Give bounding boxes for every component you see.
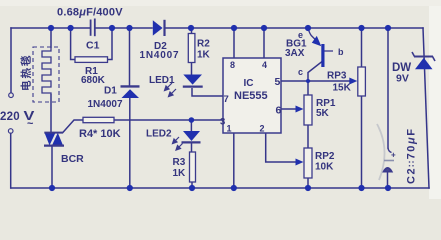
wire RP2 to bottom rail [307,178,309,188]
wire heater column top [50,28,52,47]
node RP2 bottom [305,185,311,191]
wire triac to bottom rail [51,146,53,188]
node C2 top [385,25,391,31]
wire top supply rail middle segment (C1 to D2) [96,27,152,29]
svg-text:5K: 5K [316,108,330,119]
svg-text:3AX: 3AX [285,48,305,59]
wire IC pin 8 lead [233,28,235,58]
wire IC pin 5 lead [281,80,310,82]
wire LED1 to IC pin 7 [192,89,223,96]
LED LED2 [183,131,200,141]
svg-text:6: 6 [276,105,282,117]
svg-text:7: 7 [224,94,229,105]
svg-text:RP2: RP2 [315,151,335,162]
node triac bottom [49,185,55,191]
diode D2 [153,20,163,35]
node R2 top [188,25,194,31]
wire IC pin 1 lead to bottom rail [233,133,235,188]
svg-text:1K: 1K [197,50,211,61]
svg-text:NE555: NE555 [234,90,268,102]
node pin 8 top [231,25,237,31]
svg-text:220: 220 [0,111,20,123]
wire R2 top lead [191,28,193,34]
node BG1 emitter top [305,25,311,31]
node D1 top [126,25,132,31]
svg-text:R2: R2 [197,39,210,50]
wire RP3 top lead [361,28,363,67]
resistor R2 [188,34,195,63]
svg-text:5: 5 [275,76,281,88]
svg-text:10K: 10K [315,162,334,173]
wire RP3 wiper lead [310,80,352,82]
svg-text:D1: D1 [104,86,117,97]
svg-text:~: ~ [27,118,34,130]
svg-text:C1: C1 [86,40,100,52]
svg-text:9V: 9V [396,73,409,85]
resistor R1 [75,57,108,63]
svg-text:1N4007: 1N4007 [140,50,180,61]
wire pin 3 net (R4 to IC pin 3) [114,119,223,121]
wire R2 to LED1 [191,63,193,75]
svg-text:1K: 1K [173,168,187,179]
wire R3 to bottom rail [191,182,193,188]
wire top supply rail left segment [11,27,90,29]
wire IC pin 6 lead [281,108,296,110]
wire RP3 bottom lead [361,96,363,188]
wire C2 top lead [387,28,389,148]
node heater top [48,25,54,31]
svg-text:2: 2 [260,124,265,134]
resistor R4 [83,117,114,122]
wire D1 column lower [129,98,131,188]
wire C2 bottom lead [387,172,389,188]
svg-text:R4* 10K: R4* 10K [79,128,121,140]
wire IC pin 2 lead to RP2 wiper [266,133,296,162]
svg-text:+: + [391,151,396,160]
wire RP1 to RP2 [307,125,309,148]
svg-text:R3: R3 [173,157,186,168]
wire R4 left lead to triac gate [63,120,83,132]
capacitor C2 electrolytic [377,124,385,180]
wire right edge [423,28,429,188]
svg-text:680K: 680K [81,75,106,86]
wire left input lower lead [10,133,12,188]
node LED2 junction on pin 3 net [189,117,195,123]
node pin 4 top [261,25,267,31]
node collector/pin5/RP1 junction [306,79,310,83]
svg-text:e: e [298,30,303,40]
node R3 bottom [189,185,195,191]
node RP3 bottom [358,185,364,191]
node D1 bottom [127,185,133,191]
heater dashed enclosure [33,47,59,102]
svg-text:b: b [338,47,344,57]
svg-text:3: 3 [220,117,225,128]
potentiometer RP3 [358,67,366,96]
transistor BG1 [308,28,333,67]
LED2 emission arrows [173,137,183,150]
wire R1 right lead [108,28,113,60]
svg-text:RP3: RP3 [327,71,347,82]
potentiometer RP2 [304,148,312,178]
node R1/C1 left [68,25,74,31]
triac BCR [45,133,64,146]
node C2 bottom [385,185,391,191]
wire LED2 top stub [190,120,192,131]
svg-text:LED2: LED2 [146,129,172,140]
zener diode DW [414,56,433,58]
wire heater to triac [50,95,52,133]
node R1/C1 right [109,25,115,31]
node pin 1 bottom [231,185,237,191]
IC U1 NE555 body [223,58,281,133]
potentiometer RP1 [304,95,312,125]
svg-text:c: c [298,67,303,77]
svg-text:1N4007: 1N4007 [88,99,123,110]
svg-text:0.68μF/400V: 0.68μF/400V [57,7,123,19]
wire top supply rail right segment (D2 to corner) [166,27,423,29]
wire left input upper lead [10,28,12,93]
wire IC pin 4 lead [263,28,265,58]
svg-text:BCR: BCR [61,153,84,165]
wire BG1 collector [308,62,322,96]
heater element (electric blanket) [42,47,51,95]
svg-text:15K: 15K [333,83,352,94]
LED1 emission arrows [165,83,177,97]
terminal upper input [9,93,14,98]
svg-text:IC: IC [244,78,254,89]
wire LED2 to R3 [191,144,193,153]
diode D1 [121,85,140,87]
wire bottom supply rail [11,187,429,189]
capacitor C1 [91,19,95,37]
resistor R3 [190,152,196,182]
svg-text:电热毯: 电热毯 [20,54,33,92]
wire D1 column upper [129,28,131,85]
svg-text:4: 4 [262,60,267,70]
svg-text:C2∷70μF: C2∷70μF [406,127,418,184]
terminal lower input [8,129,13,134]
svg-text:8: 8 [230,60,235,70]
LED LED1 [183,75,202,85]
node RP3 top [358,25,364,31]
svg-text:1: 1 [227,124,232,134]
wire R1 left lead [71,28,75,60]
